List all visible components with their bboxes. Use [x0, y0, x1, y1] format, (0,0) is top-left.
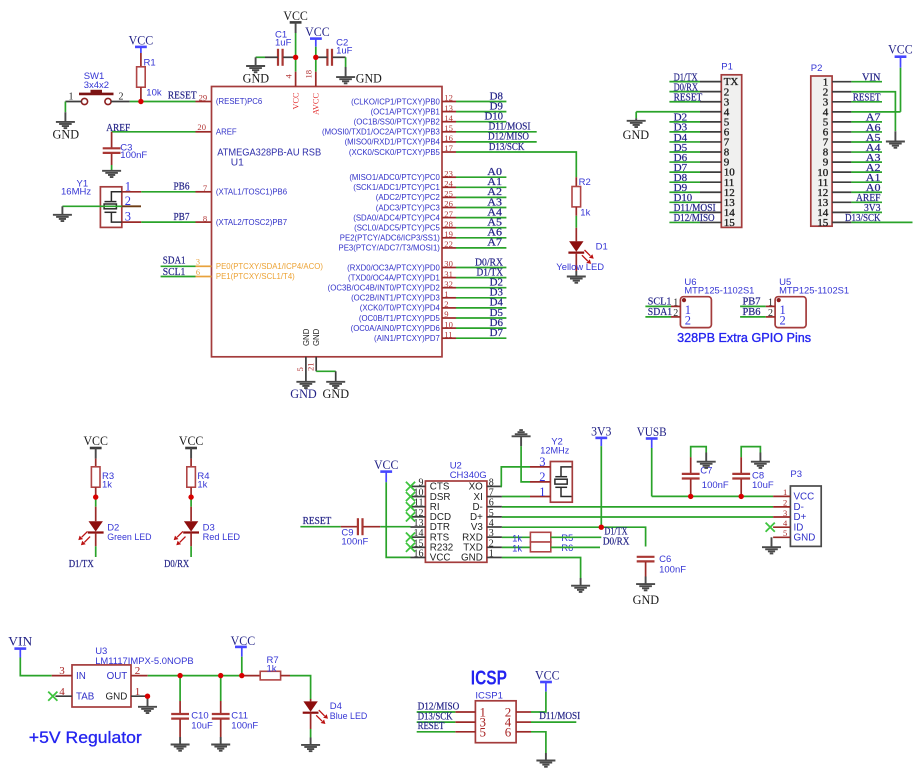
capacitor C1	[265, 30, 293, 66]
U6 pin 1	[671, 297, 680, 308]
crystal Y2	[540, 436, 572, 502]
P1 pin 7	[700, 137, 730, 149]
wire D12/MISO (ICSP)	[417, 711, 456, 713]
wire PB7 net (U5)	[740, 305, 766, 307]
label D3 color	[203, 532, 241, 543]
svg-text:30: 30	[444, 259, 453, 269]
IC U5 MTP125-1102S1	[775, 277, 849, 328]
wire D3 to net	[190, 546, 192, 557]
svg-text:10k: 10k	[146, 88, 162, 99]
net label D13/SCK (P2)	[845, 213, 881, 224]
net label D11/MOSI	[489, 122, 531, 133]
wire A0 (P2)	[851, 191, 882, 193]
svg-text:(OC1B/SS0/PTCXY)PB2: (OC1B/SS0/PTCXY)PB2	[354, 118, 440, 127]
net label PB6 (U5)	[743, 307, 761, 318]
P1 pin 14	[700, 207, 735, 219]
wire D0/RX net (R6)	[551, 546, 600, 548]
net label A6	[487, 228, 502, 239]
net label SCL1 (U6)	[648, 296, 672, 307]
LED D2	[78, 507, 119, 547]
capacitor C7	[682, 457, 729, 496]
net label D1/TX (U2)	[605, 527, 628, 538]
svg-text:D1/TX: D1/TX	[69, 559, 94, 570]
svg-text:1: 1	[444, 289, 448, 299]
ground (C6)	[633, 577, 660, 608]
svg-text:100nF: 100nF	[702, 480, 729, 491]
svg-text:(SDA0/ADC4/PTCY)PC4: (SDA0/ADC4/PTCY)PC4	[353, 213, 440, 222]
ground (P1)	[623, 118, 650, 142]
wire P1 pin4 to GND	[636, 112, 700, 118]
P1 pin 12	[700, 187, 735, 199]
U5 pin 2	[766, 308, 775, 319]
net label D5	[490, 308, 503, 319]
net label D10 (P1)	[674, 193, 693, 204]
net label A2 (P2)	[866, 163, 881, 174]
U1 pin 22 PE3(PTCY/ADC7/T3/MOSI1)	[339, 239, 456, 253]
U2 pin 5 D+	[470, 508, 502, 523]
svg-text:SCL1: SCL1	[648, 296, 672, 307]
wire A1 (P2)	[851, 181, 882, 183]
ground (C1)	[243, 57, 270, 85]
label Blue LED	[330, 711, 368, 722]
wire D11/MOSI (P1)	[669, 211, 700, 213]
svg-text:PE2(PTCY/ADC6/ICP3/SS1): PE2(PTCY/ADC6/ICP3/SS1)	[340, 234, 440, 243]
svg-text:3: 3	[539, 455, 545, 469]
net label D4 (P1)	[674, 133, 688, 144]
ground (C10)	[171, 737, 190, 751]
capacitor C11	[212, 676, 259, 737]
wire D3 net	[456, 297, 506, 299]
svg-text:13: 13	[444, 103, 453, 113]
wire A4 (P2)	[851, 151, 882, 153]
P2 pin 2	[823, 86, 852, 98]
wire P2 pin4	[851, 111, 900, 113]
wire XI to Y2.1	[502, 496, 530, 498]
LED D1	[568, 228, 607, 271]
P3 pin 2 D-	[773, 498, 804, 513]
net label D3	[490, 288, 503, 299]
svg-text:(TXD0/OC4A/PTCXY)PD1: (TXD0/OC4A/PTCXY)PD1	[348, 273, 440, 282]
P2 pin 8	[823, 147, 852, 159]
U1 pin 28 (SCL0/ADC5/PTCY)PC5	[354, 219, 456, 233]
capacitor C6	[637, 554, 687, 577]
svg-text:GND: GND	[623, 128, 650, 142]
svg-text:R1: R1	[144, 58, 156, 69]
U1 pin 24 (SCK1/ADC1/PTCY)PC1	[353, 179, 456, 193]
P2 pin 12	[817, 187, 851, 199]
U2 pin 9 CTS	[406, 477, 450, 492]
svg-text:GND: GND	[106, 692, 128, 703]
U2 pin 12 DCD	[406, 508, 451, 523]
net label D13/SCK (ICSP)	[418, 711, 453, 722]
wire D9 net	[456, 111, 506, 113]
svg-text:27: 27	[444, 209, 453, 219]
P1 pin 9	[700, 157, 730, 169]
capacitor C8	[732, 457, 774, 496]
svg-text:GND: GND	[243, 72, 270, 86]
ground (C8)	[751, 453, 770, 468]
svg-text:P1: P1	[721, 62, 733, 73]
title +5V Regulator	[29, 729, 143, 747]
svg-text:(RESET)PC6: (RESET)PC6	[216, 97, 262, 106]
ground (P3)	[762, 537, 781, 553]
U1 pin 7 (XTAL1/TOSC1)PB6	[196, 183, 288, 197]
svg-text:1k: 1k	[102, 479, 112, 490]
svg-text:11: 11	[444, 329, 452, 339]
resistor R5	[502, 532, 573, 544]
ICSP1 pin 6	[505, 724, 531, 739]
P1 pin 3	[700, 96, 730, 108]
ground (U1 pin21)	[323, 382, 350, 401]
P2 pin 15	[817, 217, 851, 229]
svg-text:(RXD0/OC3A/PTCXY)PD0: (RXD0/OC3A/PTCXY)PD0	[347, 263, 440, 272]
svg-text:(XTAL1/TOSC1)PB6: (XTAL1/TOSC1)PB6	[216, 188, 287, 197]
svg-text:D13/SCK: D13/SCK	[845, 213, 881, 224]
P2 pin 1	[823, 76, 852, 88]
svg-text:2: 2	[768, 308, 773, 319]
svg-text:VUSB: VUSB	[637, 425, 667, 439]
net label RESET (P1)	[674, 93, 703, 104]
svg-text:VCC: VCC	[283, 9, 308, 23]
net label A0 (P2)	[866, 183, 881, 194]
U1 pin 2 (XCK0/T0/PTCXY)PD4	[360, 299, 456, 313]
svg-text:+5V Regulator: +5V Regulator	[29, 729, 143, 747]
Y2 pin 2	[530, 470, 550, 484]
junction C1/VCC	[293, 55, 298, 60]
capacitor C3	[103, 132, 148, 171]
svg-text:VCC: VCC	[794, 492, 815, 503]
net label A1	[487, 177, 502, 188]
U1 pin 15 (MOSI0/TXD1/OC2A/PTCXY)PB3	[322, 123, 456, 137]
wire D6 net	[456, 327, 506, 329]
net label D2 (P1)	[674, 113, 688, 124]
svg-text:VCC: VCC	[305, 25, 330, 39]
wire PB6 net (U5)	[740, 316, 766, 318]
wire D4 to GND	[310, 729, 312, 738]
wire XO to Y2.3	[501, 467, 530, 487]
svg-text:3: 3	[59, 665, 65, 677]
wire D+ net	[502, 516, 773, 518]
wire D5 net	[456, 317, 506, 319]
wire A4 net	[456, 217, 506, 219]
wire C8 to GND	[741, 447, 760, 458]
svg-text:PE0(PTCXY/SDA1/ICP4/ACO): PE0(PTCXY/SDA1/ICP4/ACO)	[216, 262, 323, 271]
net label D11/MOSI (ICSP)	[539, 711, 580, 722]
wire A3 net	[456, 207, 506, 209]
power VCC (P2)	[888, 42, 913, 112]
svg-text:ICSP1: ICSP1	[475, 690, 502, 701]
wire D0/RX net	[456, 267, 506, 269]
wire C1 to GND	[256, 56, 265, 58]
net label D5 (P1)	[674, 143, 688, 154]
svg-text:RESET: RESET	[418, 721, 445, 732]
svg-text:AVCC: AVCC	[312, 93, 321, 115]
U2 pin 15 R232	[406, 538, 453, 553]
net label D7	[490, 328, 503, 339]
ICSP1 pin 1	[455, 705, 486, 720]
wire D6 (P1)	[669, 161, 700, 163]
junction C7	[688, 494, 693, 499]
P2 pin 13	[817, 197, 851, 209]
svg-text:328PB Extra GPIO Pins: 328PB Extra GPIO Pins	[677, 330, 811, 345]
junction C10	[177, 673, 182, 678]
power VCC (ICSP)	[531, 669, 560, 713]
wire SCL1 net	[161, 276, 196, 278]
svg-text:(MISO1/ADC0/PTCY)PC0: (MISO1/ADC0/PTCY)PC0	[349, 173, 440, 182]
wire SCL1 net (U6)	[645, 305, 671, 307]
wire D5 (P1)	[669, 151, 700, 153]
label D2 color	[107, 532, 152, 543]
U1 pin 29 (RESET)PC6	[196, 93, 263, 107]
U1 pin 5 GND	[295, 328, 311, 381]
P2 pin 6	[823, 127, 852, 139]
svg-text:3: 3	[783, 508, 787, 518]
svg-text:100nF: 100nF	[231, 720, 258, 731]
ICSP1 pin 5	[455, 724, 486, 739]
wire Y2.2 to GND	[521, 446, 530, 482]
U6 pin 2	[671, 308, 680, 319]
wire SDA1 net	[161, 265, 196, 267]
P1 pin 1	[700, 76, 738, 88]
ground (D4)	[301, 738, 320, 752]
capacitor C9	[341, 518, 381, 547]
U1 pin 10 (OC0A/AIN0/PTCXY)PD6	[351, 319, 456, 333]
power VCC (regulator)	[231, 634, 256, 676]
net label RESET	[168, 91, 197, 102]
net label A0	[487, 167, 502, 178]
svg-text:(ADC3/PTCY)PC3: (ADC3/PTCY)PC3	[376, 203, 440, 212]
power 3V3	[591, 424, 611, 527]
wire pin21 to GND	[316, 371, 336, 382]
IC U3 body	[72, 646, 194, 707]
wire 3V3 (P2)	[851, 211, 882, 213]
svg-text:1: 1	[125, 180, 131, 194]
svg-text:100nF: 100nF	[120, 150, 147, 161]
resistor R4	[187, 467, 210, 495]
wire D4 (P1)	[669, 141, 700, 143]
resistor R1	[137, 58, 162, 102]
wire D9 (P1)	[669, 191, 700, 193]
power VCC (reset pull-up)	[129, 33, 154, 67]
wire A6 net	[456, 237, 506, 239]
svg-text:D13/SCK: D13/SCK	[489, 142, 525, 153]
Y1 pin 1	[122, 180, 142, 194]
net label AREF	[106, 123, 130, 134]
svg-text:7: 7	[203, 183, 208, 193]
wire R4 to D3	[190, 495, 192, 507]
wire D12/MISO (P1)	[669, 221, 700, 223]
P3 pin 3 D+	[773, 508, 806, 523]
svg-text:P3: P3	[790, 469, 802, 480]
net label SCL1	[163, 267, 186, 278]
U1 pin 20 AREF	[196, 122, 237, 137]
net label D9 (P1)	[674, 183, 688, 194]
wire A7 net	[456, 247, 506, 249]
wire D0/RX (P1)	[669, 91, 700, 93]
svg-text:4: 4	[59, 686, 65, 698]
net label A4 (P2)	[866, 143, 882, 154]
svg-text:2: 2	[539, 470, 545, 484]
svg-text:19: 19	[444, 229, 453, 239]
P1 pin 6	[700, 127, 730, 139]
wire D2 to net	[95, 546, 97, 557]
P1 pin 10	[700, 167, 735, 179]
P2 pin 9	[823, 157, 852, 169]
net label D13/SCK	[489, 142, 525, 153]
ICSP1 pin 3	[455, 715, 486, 730]
svg-text:Green LED: Green LED	[107, 532, 152, 543]
net label D10	[485, 112, 504, 123]
svg-text:16: 16	[444, 133, 453, 143]
U1 pin 31 (TXD0/OC4A/PTCXY)PD1	[348, 269, 456, 283]
svg-text:PE3(PTCY/ADC7/T3/MOSI1): PE3(PTCY/ADC7/T3/MOSI1)	[339, 244, 441, 253]
U1 pin 12 (CLKO/ICP1/PTCXY)PB0	[351, 93, 456, 107]
wire R7 to D4	[290, 676, 311, 699]
svg-text:GND: GND	[356, 72, 382, 86]
P2 pin 11	[818, 177, 852, 189]
no-connect X (P3 ID)	[766, 523, 775, 532]
wire VCC to U2 pin16	[386, 482, 410, 557]
svg-text:10: 10	[444, 319, 453, 329]
svg-text:3V3: 3V3	[591, 424, 611, 438]
svg-text:MTP125-1102S1: MTP125-1102S1	[779, 285, 849, 296]
wire U2 GND	[502, 558, 581, 579]
IC U6 MTP125-1102S1	[680, 277, 754, 328]
P3 pin 4 ID	[773, 518, 803, 533]
connector P3 body	[790, 469, 821, 546]
net label A3 (P2)	[866, 153, 881, 164]
U2 pin 8 XO	[469, 477, 502, 492]
svg-text:1uF: 1uF	[275, 38, 292, 49]
svg-text:Yellow LED: Yellow LED	[556, 262, 604, 273]
svg-text:22: 22	[444, 239, 453, 249]
net label D7 (P1)	[674, 163, 688, 174]
ground (P2)	[886, 131, 905, 147]
svg-text:(OC3B/OC4B/INT0/PTCXY)PD2: (OC3B/OC4B/INT0/PTCXY)PD2	[328, 284, 440, 293]
svg-text:OUT: OUT	[107, 671, 128, 682]
wire D4 net	[456, 307, 506, 309]
net label PB6	[174, 182, 190, 193]
net label 3V3 (P2)	[864, 203, 881, 214]
svg-text:2: 2	[685, 314, 691, 328]
svg-text:21: 21	[305, 362, 315, 371]
svg-text:VIN: VIN	[8, 635, 32, 649]
junction 3V3/V3	[599, 525, 604, 530]
svg-text:VIN: VIN	[862, 73, 881, 84]
U2 pin 3 RXD	[462, 528, 502, 543]
svg-text:18: 18	[304, 70, 314, 79]
U1 pin 27 (SDA0/ADC4/PTCY)PC4	[353, 209, 456, 223]
svg-text:(OC0B/T1/PTCXY)PD5: (OC0B/T1/PTCXY)PD5	[359, 314, 441, 323]
switch SW1	[65, 71, 129, 105]
svg-text:16: 16	[414, 548, 424, 559]
U2 pin 6 D-	[472, 498, 501, 513]
P2 pin 14	[817, 207, 851, 219]
svg-text:28: 28	[444, 219, 453, 229]
svg-text:(OC2B/INT1/PTCXY)PD3: (OC2B/INT1/PTCXY)PD3	[351, 294, 440, 303]
connector ICSP1 body	[475, 690, 516, 742]
svg-text:5: 5	[480, 724, 487, 739]
svg-text:Red LED: Red LED	[203, 532, 241, 543]
wire D7 net	[456, 337, 506, 339]
net label D1/TX (D2)	[69, 559, 94, 570]
wire D10 net	[456, 121, 506, 123]
svg-text:100nF: 100nF	[341, 537, 368, 548]
net label D0/RX (P1)	[674, 82, 699, 93]
resistor R6	[502, 542, 573, 554]
svg-text:(XTAL2/TOSC2)PB7: (XTAL2/TOSC2)PB7	[216, 218, 287, 227]
wire D7 (P1)	[669, 171, 700, 173]
wire VUSB rail	[652, 495, 773, 497]
title 328PB Extra GPIO Pins	[677, 330, 811, 345]
power VUSB	[637, 425, 667, 497]
U3 pin 1 GND	[106, 686, 148, 703]
svg-text:2: 2	[673, 308, 678, 319]
wire P2 pin2 to VCC/GND rail	[851, 92, 895, 132]
svg-text:16MHz: 16MHz	[61, 187, 91, 198]
svg-text:RESET: RESET	[853, 93, 881, 104]
U2 pin 13 DTR	[411, 518, 450, 533]
wire A6 (P2)	[851, 131, 882, 133]
svg-text:2: 2	[780, 314, 786, 328]
wire D11/MOSI net	[456, 131, 537, 133]
net label A5	[487, 218, 502, 229]
junction C2/AVCC	[313, 55, 318, 60]
wire A3 (P2)	[851, 161, 882, 163]
net label PB7	[174, 212, 190, 223]
P1 pin 8	[700, 147, 730, 159]
ground (C3)	[102, 171, 121, 177]
net label SDA1 (U6)	[648, 307, 672, 318]
junction R4/D3	[188, 494, 193, 499]
ground (ICSP)	[536, 753, 555, 767]
net label D12/MISO (P1)	[674, 213, 715, 224]
svg-text:(ADC2/PTCY)PC2: (ADC2/PTCY)PC2	[376, 193, 440, 202]
label Yellow LED	[556, 262, 604, 273]
svg-text:32: 32	[444, 279, 453, 289]
svg-text:D0/RX: D0/RX	[603, 537, 630, 548]
svg-text:SDA1: SDA1	[648, 307, 672, 318]
U1 pin 4 VCC	[284, 72, 301, 110]
U2 pin 10 DSR	[406, 488, 451, 503]
svg-text:1: 1	[768, 297, 773, 308]
svg-text:GND: GND	[323, 387, 350, 401]
P1 pin 5	[700, 116, 730, 128]
svg-text:SDA1: SDA1	[163, 256, 186, 267]
net label D6	[490, 318, 503, 329]
connector P1 body	[721, 62, 741, 228]
svg-text:GND: GND	[290, 387, 317, 401]
wire D11/MOSI (ICSP)	[531, 721, 576, 723]
wire D10 (P1)	[669, 201, 700, 203]
svg-text:20: 20	[197, 122, 206, 132]
U2 pin 4 V3	[471, 518, 502, 533]
junction reset/R1	[138, 99, 143, 104]
svg-text:1uF: 1uF	[336, 46, 353, 57]
P3 pin 1 VCC	[773, 487, 814, 502]
svg-text:8: 8	[203, 213, 207, 223]
U1 pin 26 (ADC3/PTCY)PC3	[376, 199, 456, 213]
power VCC (D3 branch, black)	[179, 434, 204, 467]
svg-text:Blue LED: Blue LED	[330, 711, 368, 722]
net label RESET (C9)	[303, 516, 332, 527]
svg-text:1k: 1k	[580, 208, 590, 219]
wire D13/SCK (ICSP)	[417, 721, 456, 723]
U1 pin 1 (OC2B/INT1/PTCXY)PD3	[351, 289, 456, 303]
wire +5V rail	[148, 675, 242, 677]
P1 pin 13	[700, 197, 735, 209]
svg-text:TAB: TAB	[76, 692, 95, 703]
